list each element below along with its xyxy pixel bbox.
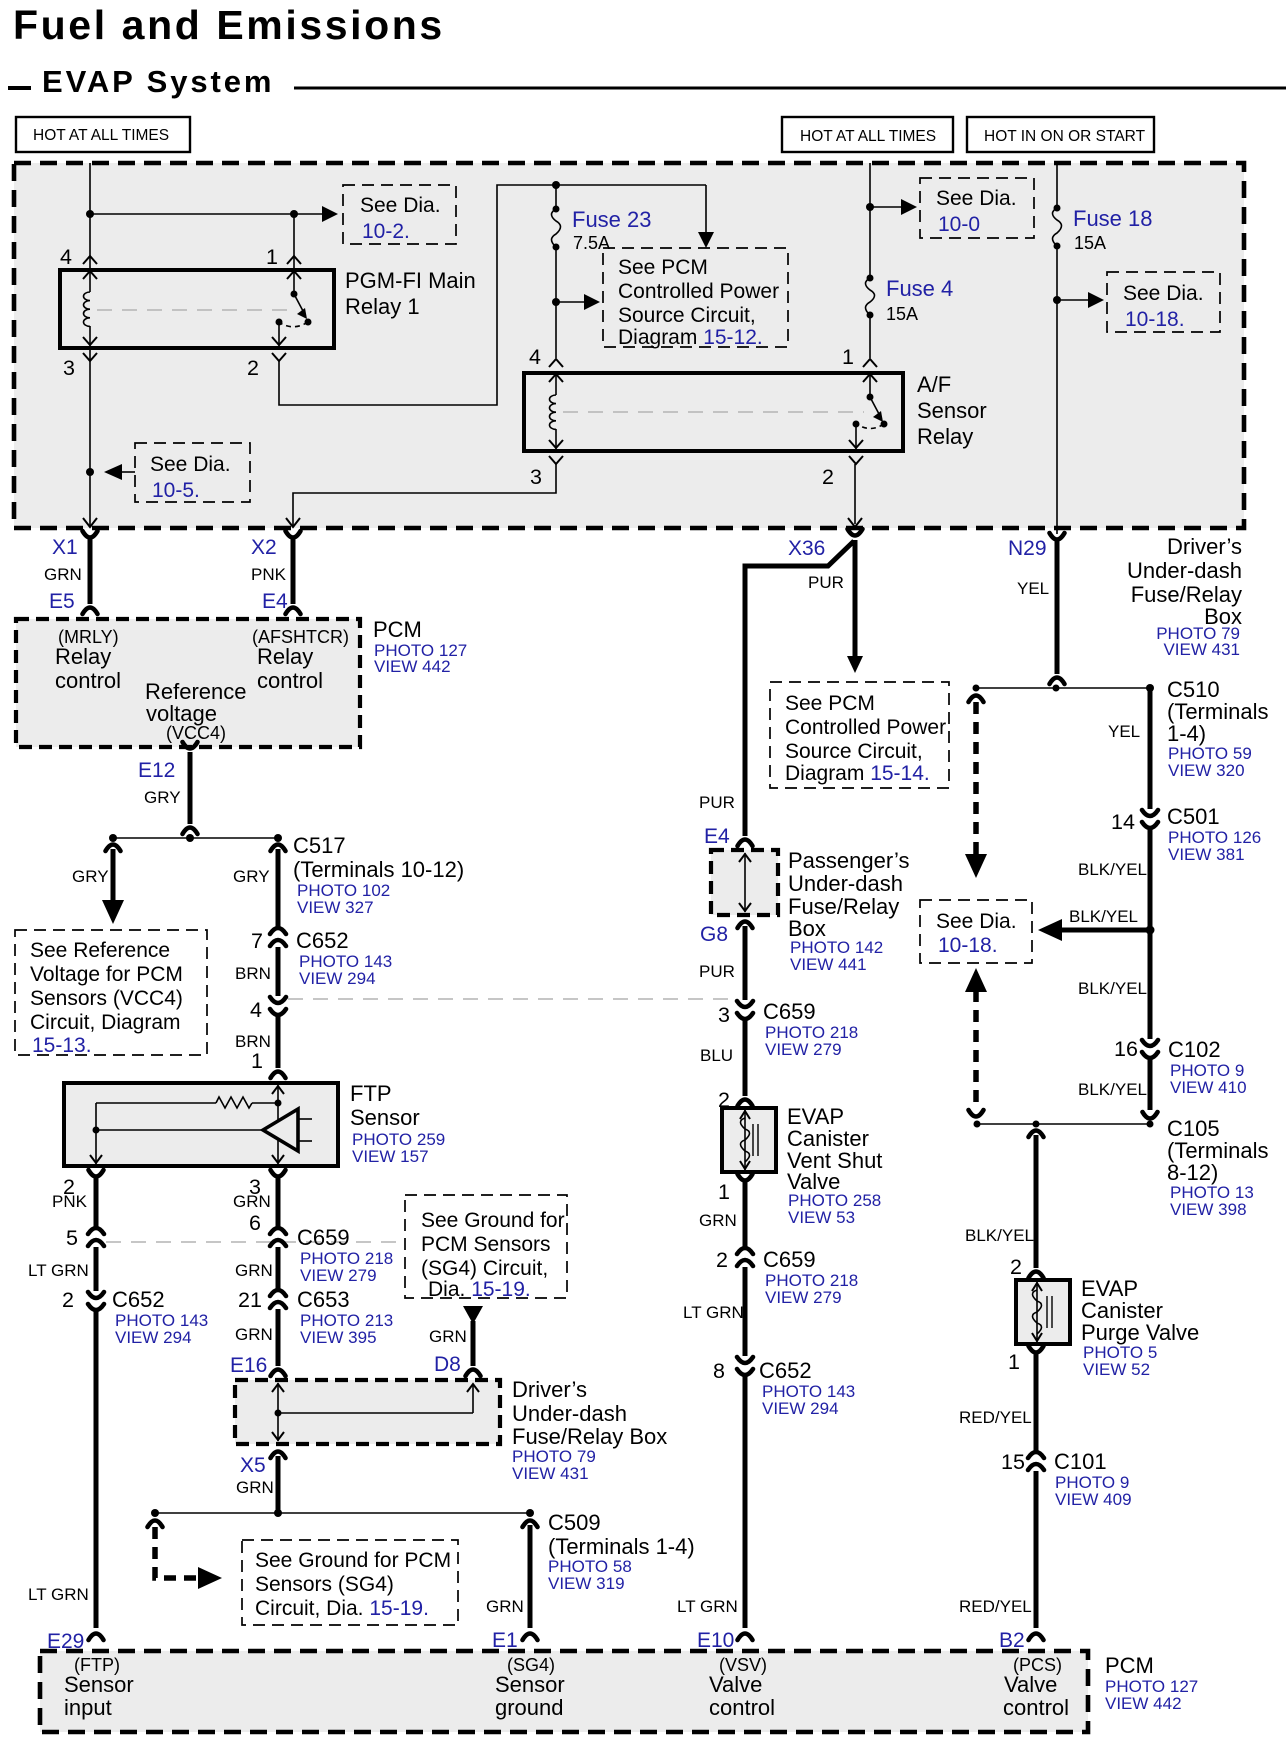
svg-text:Valve: Valve	[1004, 1672, 1057, 1697]
FTP pin 2 cup	[89, 1170, 104, 1177]
See Dia. 10-2. dashed box	[343, 185, 456, 244]
connector C102 pin 16	[1142, 1040, 1158, 1058]
svg-text:VIEW 441: VIEW 441	[790, 955, 867, 974]
svg-text:BLK/YEL: BLK/YEL	[965, 1226, 1034, 1245]
svg-text:1-4): 1-4)	[1167, 721, 1206, 746]
svg-text:Source Circuit,: Source Circuit,	[618, 304, 756, 327]
node on feed wire at y=214	[86, 210, 94, 218]
purge valve label	[1081, 1276, 1199, 1379]
See Dia. 10-18. dashed box (mid)	[920, 900, 1032, 963]
Passenger's box internal arrow	[739, 853, 751, 912]
svg-text:VIEW 319: VIEW 319	[548, 1574, 625, 1593]
wire 4 to FTP pin 1	[276, 1014, 281, 1068]
Relay control (AFSHTCR)	[257, 644, 323, 693]
C517 label	[293, 833, 464, 917]
svg-text:PCM: PCM	[1105, 1653, 1154, 1678]
C105 junction dots	[974, 1121, 1154, 1128]
svg-text:PGM-FI Main: PGM-FI Main	[345, 268, 476, 293]
svg-text:1: 1	[842, 345, 854, 369]
A/F pin 3 chevrons	[549, 440, 563, 464]
svg-text:GRN: GRN	[44, 565, 82, 584]
svg-text:4: 4	[60, 245, 72, 269]
svg-text:Valve: Valve	[709, 1672, 762, 1697]
C102 label	[1168, 1037, 1247, 1097]
EVAP Canister Purge Valve box	[1016, 1280, 1070, 1344]
svg-text:Sensor: Sensor	[495, 1672, 565, 1697]
svg-text:Source Circuit,: Source Circuit,	[785, 740, 923, 763]
svg-text:E4: E4	[704, 825, 730, 848]
svg-text:C652: C652	[112, 1287, 165, 1312]
left dashed branch cup (C510)	[969, 696, 984, 703]
arrowhead into X2	[286, 518, 300, 527]
wire C652-2 down to E29	[94, 1309, 99, 1628]
FTP label	[350, 1081, 445, 1166]
svg-text:E5: E5	[49, 590, 75, 613]
B2 cup	[1029, 1634, 1044, 1641]
wire 21 to E16	[276, 1309, 281, 1366]
C105 junction line	[976, 1123, 1150, 1125]
See PCM Controlled Power Source 15-12 dashed box	[603, 248, 788, 349]
svg-text:(SG4) Circuit,: (SG4) Circuit,	[421, 1257, 548, 1280]
FTP Sensor box	[64, 1083, 338, 1166]
fuse 18 feed wire	[1056, 163, 1058, 208]
svg-text:PCM: PCM	[373, 617, 422, 642]
wire: pin 2 S-path to fuse 23 feed	[279, 185, 706, 405]
PCM label (top)	[373, 617, 467, 676]
fuse 4 feed wire	[869, 163, 871, 278]
svg-text:GRY: GRY	[233, 867, 270, 886]
svg-text:Purge Valve: Purge Valve	[1081, 1320, 1199, 1345]
svg-text:Sensors (SG4): Sensors (SG4)	[255, 1573, 394, 1596]
E1 cup	[523, 1634, 538, 1641]
svg-text:PNK: PNK	[52, 1192, 88, 1211]
C510 junction line	[976, 687, 1150, 689]
svg-text:10-18.: 10-18.	[938, 934, 998, 957]
svg-text:PNK: PNK	[251, 565, 287, 584]
purge branch cup (C105)	[1029, 1131, 1044, 1138]
E4 cup	[738, 840, 753, 847]
wire 8 to E10	[743, 1374, 748, 1628]
svg-text:See PCM: See PCM	[618, 256, 708, 279]
wire: horizontal to See Dia 10-2	[90, 213, 330, 215]
svg-text:Fuse 4: Fuse 4	[886, 276, 953, 301]
svg-text:3: 3	[63, 356, 75, 380]
wire C101 to B2	[1034, 1471, 1039, 1628]
svg-text:4: 4	[529, 345, 541, 369]
svg-text:16: 16	[1114, 1037, 1138, 1061]
Passenger's box label	[788, 848, 909, 974]
PGM-FI Main Relay 1 box	[60, 270, 334, 348]
wire: X36 diagonal to E4 column	[745, 541, 854, 836]
svg-text:GRN: GRN	[429, 1327, 467, 1346]
wire: battery feed down from border at x=90	[89, 163, 91, 270]
svg-text:(Terminals 10-12): (Terminals 10-12)	[293, 857, 464, 882]
svg-text:C652: C652	[759, 1358, 812, 1383]
vent valve label	[787, 1104, 882, 1227]
svg-text:Fuse/Relay Box: Fuse/Relay Box	[512, 1424, 667, 1449]
svg-text:RED/YEL: RED/YEL	[959, 1597, 1032, 1616]
svg-text:Under-dash: Under-dash	[1127, 558, 1242, 583]
Passenger's Under-dash Fuse/Relay Box dashed box	[711, 850, 778, 915]
Driver's box internal junction dot	[275, 1410, 282, 1417]
svg-text:10-2.: 10-2.	[362, 220, 410, 243]
dashed branch down to C105 line	[973, 990, 979, 1108]
svg-text:4: 4	[250, 998, 262, 1022]
purge valve solenoid symbol	[1032, 1282, 1052, 1342]
arrow into See Dia 10-0	[870, 199, 917, 215]
wire pin2 to C659 pin 5	[94, 1176, 99, 1228]
purge valve pin 1 cup	[1029, 1346, 1044, 1353]
arrow up into See Dia 10-18	[965, 968, 987, 992]
C517 junction dots	[109, 834, 282, 842]
HOT AT ALL TIMES box (left)	[16, 117, 190, 152]
svg-text:VIEW 294: VIEW 294	[299, 969, 376, 988]
svg-text:2: 2	[822, 465, 834, 489]
svg-text:X36: X36	[788, 537, 825, 560]
Driver's Under-dash Fuse/Relay Box label (top right)	[1127, 534, 1242, 659]
svg-text:VIEW 410: VIEW 410	[1170, 1078, 1247, 1097]
svg-text:See Dia.: See Dia.	[936, 910, 1017, 933]
C652 label	[296, 928, 392, 988]
wire 1 to C659 pin 2	[743, 1180, 748, 1248]
svg-text:BLU: BLU	[700, 1046, 733, 1065]
svg-text:C101: C101	[1054, 1449, 1107, 1474]
connector X1/E5	[83, 531, 98, 614]
svg-text:E1: E1	[492, 1629, 518, 1652]
Driver's box label (bottom)	[512, 1377, 667, 1483]
arrow into 15-12 box left	[556, 294, 600, 310]
FTP internal resistor	[96, 1097, 282, 1108]
svg-text:8: 8	[713, 1359, 725, 1383]
(SG4) Sensor ground label	[495, 1655, 565, 1720]
arrow down into See PCM 15-12 box	[698, 185, 714, 248]
svg-text:BRN: BRN	[235, 964, 271, 983]
thick arrow down to See PCM 15-14 box	[847, 540, 863, 673]
svg-text:GRN: GRN	[233, 1192, 271, 1211]
HOT IN ON OR START box	[967, 117, 1154, 152]
svg-text:VIEW 294: VIEW 294	[762, 1399, 839, 1418]
svg-text:Passenger’s: Passenger’s	[788, 848, 909, 873]
arrowhead into See Dia 10-2	[322, 206, 338, 222]
C653 label	[297, 1287, 393, 1347]
left dashed branch cup	[148, 1521, 163, 1528]
svg-text:N29: N29	[1008, 537, 1047, 560]
svg-text:YEL: YEL	[1108, 722, 1140, 741]
svg-text:(VCC4): (VCC4)	[166, 723, 226, 743]
svg-text:VIEW 52: VIEW 52	[1083, 1360, 1150, 1379]
svg-text:LT GRN: LT GRN	[683, 1303, 744, 1322]
svg-text:See Ground for PCM: See Ground for PCM	[255, 1549, 451, 1572]
svg-text:Fuel and Emissions: Fuel and Emissions	[13, 2, 445, 48]
See Reference Voltage 15-13 dashed box	[15, 930, 207, 1057]
pin 3 chevrons	[83, 337, 97, 361]
connector C659 pin 2	[737, 1248, 753, 1266]
Relay control (MRLY)	[55, 644, 121, 693]
svg-text:1: 1	[251, 1049, 263, 1073]
E10 cup	[738, 1634, 753, 1641]
connector C659 pin 5	[88, 1228, 104, 1246]
svg-text:C517: C517	[293, 833, 346, 858]
svg-text:21: 21	[238, 1288, 262, 1312]
C501 label	[1167, 804, 1261, 864]
svg-text:See Ground for: See Ground for	[421, 1209, 565, 1232]
svg-text:C653: C653	[297, 1287, 350, 1312]
wire 6 to C653 pin 21	[276, 1247, 281, 1291]
wire C509 down to E1	[528, 1525, 533, 1628]
svg-text:10-5.: 10-5.	[152, 479, 200, 502]
svg-text:control: control	[1003, 1695, 1069, 1720]
svg-text:YEL: YEL	[1017, 579, 1049, 598]
connector N29	[1050, 533, 1065, 684]
svg-text:C659: C659	[763, 1247, 816, 1272]
connector C652 pin 7	[270, 928, 286, 946]
(PCS) Valve control label	[1003, 1655, 1069, 1720]
svg-text:See Dia.: See Dia.	[360, 194, 441, 217]
C509 label	[548, 1510, 695, 1593]
svg-text:6: 6	[249, 1211, 261, 1235]
svg-text:Relay: Relay	[257, 644, 313, 669]
svg-text:LT GRN: LT GRN	[28, 1585, 89, 1604]
svg-text:GRN: GRN	[235, 1325, 273, 1344]
C510 label	[1167, 677, 1268, 780]
PCM label (bottom)	[1105, 1653, 1198, 1713]
svg-text:Diagram 15-12.: Diagram 15-12.	[618, 326, 763, 349]
svg-text:Under-dash: Under-dash	[788, 871, 903, 896]
C105 label	[1167, 1116, 1268, 1219]
svg-text:Relay 1: Relay 1	[345, 294, 420, 319]
arrowhead into X1	[83, 518, 97, 527]
svg-text:PUR: PUR	[808, 573, 844, 592]
wire C102 to C105 line	[1148, 1057, 1153, 1110]
svg-text:X2: X2	[251, 536, 277, 559]
svg-text:E12: E12	[138, 759, 175, 782]
See Dia. 10-18. dashed box (top)	[1107, 272, 1220, 332]
svg-text:X5: X5	[240, 1454, 266, 1477]
A/F relay switch contact	[853, 373, 888, 451]
svg-text:2: 2	[62, 1288, 74, 1312]
svg-text:VIEW 327: VIEW 327	[297, 898, 374, 917]
EVAP Canister Vent Shut Valve box	[722, 1108, 776, 1172]
arrow from See Dia 10-5 into wire	[104, 464, 135, 480]
Driver's box internal E16 double arrow	[272, 1383, 284, 1441]
relay switch contact	[276, 270, 312, 348]
A/F relay coil	[550, 373, 557, 451]
See Dia. 10-5. dashed box	[135, 443, 250, 502]
svg-text:Controlled Power: Controlled Power	[785, 716, 946, 739]
See Ground SG4 dashed box (lower)	[242, 1540, 458, 1625]
FTP internal left wire with arrow	[90, 1103, 102, 1164]
svg-text:C501: C501	[1167, 804, 1220, 829]
svg-text:Dia. 15-19.: Dia. 15-19.	[428, 1278, 531, 1301]
svg-text:Relay: Relay	[917, 424, 973, 449]
vent valve pin 2 cup	[738, 1100, 753, 1107]
svg-text:Voltage for PCM: Voltage for PCM	[30, 963, 183, 986]
C652 label (mid)	[759, 1358, 855, 1418]
svg-text:B2: B2	[999, 1629, 1025, 1652]
C101 label	[1054, 1449, 1132, 1509]
svg-text:10-18.: 10-18.	[1125, 308, 1185, 331]
svg-text:(Terminals 1-4): (Terminals 1-4)	[548, 1534, 695, 1559]
wire pin3 to C659 pin 6	[276, 1176, 281, 1228]
node: tap to See Dia 10-0	[866, 203, 874, 211]
svg-text:Fuse 18: Fuse 18	[1073, 206, 1153, 231]
svg-text:C659: C659	[763, 999, 816, 1024]
svg-text:See Reference: See Reference	[30, 939, 170, 962]
svg-text:7.5A: 7.5A	[573, 233, 610, 253]
connector C652 pin 2	[88, 1292, 104, 1310]
connector C652 pin 4	[270, 997, 286, 1015]
wire: pin 3 down to X1	[89, 348, 91, 526]
wire 5 to C652 pin 2	[94, 1247, 99, 1291]
svg-text:VIEW 398: VIEW 398	[1170, 1200, 1247, 1219]
svg-text:PUR: PUR	[699, 793, 735, 812]
svg-text:15: 15	[1001, 1450, 1025, 1474]
dashed branch bottom cup	[969, 1110, 984, 1117]
svg-text:GRY: GRY	[144, 788, 181, 807]
(FTP) Sensor input label	[64, 1655, 134, 1720]
X5 cup	[271, 1452, 286, 1459]
connector C652 pin 8	[737, 1357, 753, 1375]
Driver's box internal link to D8	[278, 1384, 479, 1413]
svg-text:VIEW 395: VIEW 395	[300, 1328, 377, 1347]
wire: pin 1 drop	[293, 214, 295, 270]
subtitle dash	[8, 86, 31, 90]
connector X36 cup	[848, 529, 863, 536]
svg-text:PCM Sensors: PCM Sensors	[421, 1233, 551, 1256]
relay label	[345, 268, 476, 319]
svg-text:VIEW 53: VIEW 53	[788, 1208, 855, 1227]
svg-text:3: 3	[718, 1003, 730, 1027]
svg-text:GRN: GRN	[235, 1261, 273, 1280]
node See Dia 10-5 tap	[86, 468, 94, 476]
fuse 4	[866, 275, 875, 359]
svg-text:Controlled Power: Controlled Power	[618, 280, 779, 303]
svg-text:GRY: GRY	[72, 867, 109, 886]
svg-text:15A: 15A	[1074, 233, 1106, 253]
connector E12	[183, 742, 198, 834]
A/F pin 2 chevrons	[849, 440, 863, 464]
page split dashed line (5-6)	[106, 1241, 400, 1243]
pin 2 chevrons	[272, 337, 286, 361]
svg-text:control: control	[55, 668, 121, 693]
PCM top dashed box	[16, 619, 360, 747]
svg-text:Sensor: Sensor	[64, 1672, 134, 1697]
junction dot BLK/YEL tap	[1146, 926, 1155, 935]
connector C659 pin 3	[737, 1001, 753, 1019]
(VSV) Valve control label	[709, 1655, 775, 1720]
svg-text:BLK/YEL: BLK/YEL	[1078, 1080, 1147, 1099]
svg-text:VIEW 381: VIEW 381	[1168, 845, 1245, 864]
wire: A/F pin 2 arrowhead into X36	[848, 518, 862, 527]
node: tap to 15-12 box	[552, 298, 560, 306]
svg-text:C659: C659	[297, 1225, 350, 1250]
arrow into See Dia 10-18	[1057, 292, 1104, 308]
svg-text:control: control	[257, 668, 323, 693]
junction dot fuse 23 top	[552, 181, 560, 189]
svg-text:G8: G8	[700, 923, 728, 946]
svg-text:input: input	[64, 1695, 112, 1720]
svg-text:VIEW 294: VIEW 294	[115, 1328, 192, 1347]
C102 wire bottom cup	[1143, 1112, 1158, 1119]
fuse 18	[1053, 205, 1062, 535]
FTP internal vertical wire with arrows	[272, 1085, 284, 1164]
svg-text:BLK/YEL: BLK/YEL	[1069, 907, 1138, 926]
wire arrow to D8	[471, 1321, 476, 1366]
svg-text:14: 14	[1111, 810, 1135, 834]
page split dashed line (C652/C659)	[288, 998, 737, 1000]
top power distribution dashed box	[14, 163, 1244, 528]
GRY branch right to C652	[271, 845, 286, 929]
HOT AT ALL TIMES box (middle)	[782, 117, 953, 152]
GRY branch left with arrow to See Reference	[102, 845, 124, 925]
pin 1 chevrons	[287, 256, 301, 279]
svg-text:A/F: A/F	[917, 372, 951, 397]
svg-text:See Dia.: See Dia.	[1123, 282, 1204, 305]
wire: A/F pin 3 to X2	[293, 464, 556, 526]
svg-text:Driver’s: Driver’s	[512, 1377, 587, 1402]
wire 2 to C652 pin 8	[743, 1267, 748, 1356]
See Ground SG4 dashed box (upper)	[405, 1195, 567, 1301]
svg-text:10-0: 10-0	[938, 213, 980, 236]
arrow down from See Ground box to D8	[463, 1306, 483, 1324]
svg-text:HOT AT ALL TIMES: HOT AT ALL TIMES	[800, 128, 936, 145]
A/F pin 4 chevrons	[549, 359, 563, 382]
svg-text:2: 2	[1010, 1255, 1022, 1279]
svg-text:VIEW 431: VIEW 431	[512, 1464, 589, 1483]
svg-text:Sensor: Sensor	[917, 398, 987, 423]
svg-text:Diagram 15-14.: Diagram 15-14.	[785, 762, 930, 785]
svg-text:Relay: Relay	[55, 644, 111, 669]
svg-text:LT GRN: LT GRN	[677, 1597, 738, 1616]
svg-text:C652: C652	[296, 928, 349, 953]
C659 label (mid-left)	[297, 1225, 393, 1285]
svg-text:2: 2	[716, 1248, 728, 1272]
fuse 23	[552, 185, 561, 358]
svg-text:E16: E16	[230, 1354, 267, 1377]
wire: A/F pin 2 down to X36	[854, 464, 856, 524]
FTP pin 3 cup	[271, 1170, 286, 1177]
PCM bottom dashed box	[40, 1651, 1088, 1732]
svg-text:8-12): 8-12)	[1167, 1160, 1218, 1185]
C510 junction dots	[973, 684, 1155, 692]
vent valve pin 1 cup	[738, 1174, 753, 1181]
svg-text:BLK/YEL: BLK/YEL	[1078, 860, 1147, 879]
svg-text:VIEW 409: VIEW 409	[1055, 1490, 1132, 1509]
svg-text:VIEW 157: VIEW 157	[352, 1147, 429, 1166]
node: tap to See Dia 10-18	[1053, 296, 1061, 304]
dashed branch down to See Dia 10-18	[965, 702, 987, 878]
C659 label (mid)	[763, 999, 858, 1059]
svg-text:Circuit, Diagram: Circuit, Diagram	[30, 1011, 181, 1034]
svg-text:Sensor: Sensor	[350, 1105, 420, 1130]
svg-text:See Dia.: See Dia.	[936, 187, 1017, 210]
svg-text:Driver’s: Driver’s	[1167, 534, 1242, 559]
svg-text:E10: E10	[697, 1629, 734, 1652]
See PCM Controlled Power Source 15-14 dashed box	[770, 682, 949, 788]
connector C653 pin 21	[270, 1290, 286, 1308]
svg-text:VIEW 442: VIEW 442	[374, 657, 451, 676]
svg-text:See PCM: See PCM	[785, 692, 875, 715]
svg-text:1: 1	[1008, 1350, 1020, 1374]
G8 cup	[738, 922, 753, 929]
wire 3 to vent valve pin 2	[743, 1018, 748, 1096]
svg-text:C509: C509	[548, 1510, 601, 1535]
FTP internal comparator triangle	[96, 1109, 312, 1151]
svg-text:HOT AT ALL TIMES: HOT AT ALL TIMES	[33, 127, 169, 144]
svg-text:GRN: GRN	[486, 1597, 524, 1616]
purge valve pin 2 cup	[1029, 1272, 1044, 1279]
C509 junction dots	[151, 1509, 534, 1517]
